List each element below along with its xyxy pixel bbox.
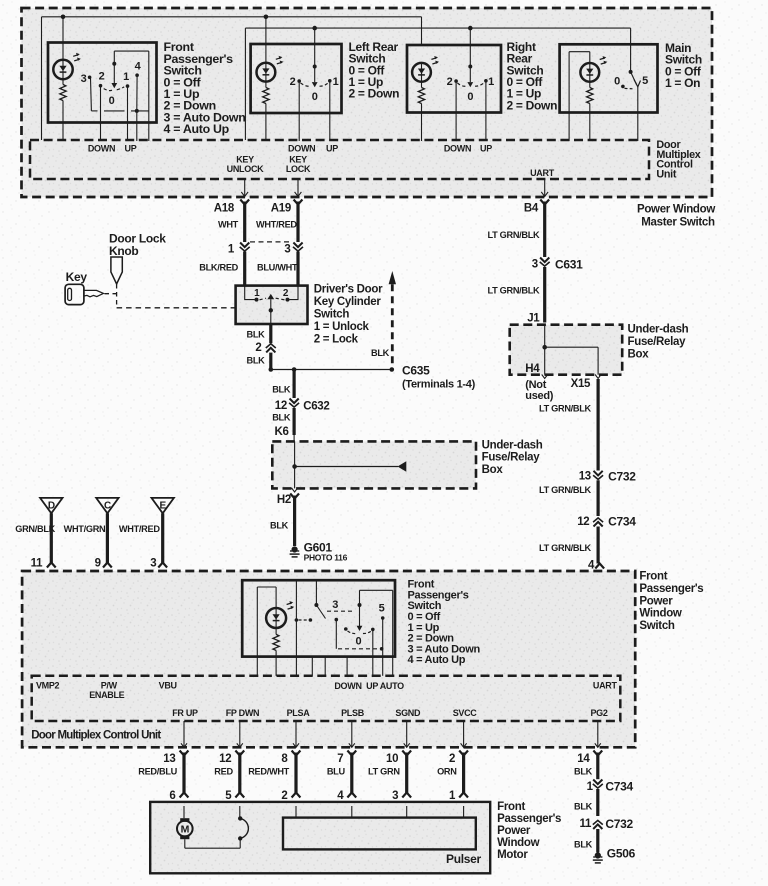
- svg-text:1: 1: [228, 243, 235, 255]
- svg-text:B4: B4: [524, 203, 539, 215]
- svg-text:ORN: ORN: [437, 766, 457, 776]
- svg-text:Window: Window: [639, 608, 682, 620]
- pin 7 wire BLU to motor pin 4: [351, 721, 353, 747]
- svg-text:LOCK: LOCK: [286, 164, 311, 174]
- svg-text:Passenger's: Passenger's: [639, 583, 703, 595]
- svg-text:2: 2: [449, 753, 455, 765]
- ground G506: [595, 852, 601, 858]
- svg-text:Box: Box: [482, 464, 504, 476]
- svg-text:UP AUTO: UP AUTO: [366, 681, 404, 691]
- svg-text:FP DWN: FP DWN: [226, 708, 260, 718]
- svg-text:2: 2: [255, 342, 261, 354]
- svg-text:Pulser: Pulser: [446, 852, 482, 866]
- svg-text:K6: K6: [274, 426, 288, 438]
- svg-text:C632: C632: [303, 400, 329, 412]
- mechanical linkage dashes: [105, 293, 117, 295]
- svg-text:BLK: BLK: [247, 355, 266, 365]
- svg-text:WHT/RED: WHT/RED: [119, 524, 160, 534]
- extra stubs below lower box: [311, 657, 313, 676]
- svg-text:KEY: KEY: [289, 155, 307, 165]
- svg-text:LT GRN/BLK: LT GRN/BLK: [539, 485, 592, 495]
- svg-text:11: 11: [580, 818, 592, 830]
- arrows out of master switch: A18 A19 B4: [244, 179, 246, 196]
- pin 13 wire RED/BLU to motor pin 6: [183, 721, 185, 747]
- svg-text:3: 3: [532, 259, 538, 271]
- lower switch contacts: [295, 580, 297, 676]
- svg-text:Door Multiplex Control Unit: Door Multiplex Control Unit: [31, 730, 161, 742]
- svg-text:VBU: VBU: [159, 680, 177, 690]
- connector C631: [540, 258, 549, 263]
- switch contacts box3: [469, 28, 471, 82]
- svg-text:VMP2: VMP2: [36, 680, 60, 690]
- svg-text:used): used): [525, 390, 553, 402]
- svg-text:DOWN: DOWN: [88, 143, 115, 153]
- front passenger's power window motor box: [150, 802, 490, 873]
- node C635 junction: [269, 367, 274, 372]
- svg-text:PLSA: PLSA: [287, 708, 311, 718]
- svg-text:SVCC: SVCC: [453, 708, 478, 718]
- connector 3 on A19: [293, 243, 302, 248]
- svg-text:LT GRN: LT GRN: [368, 766, 400, 776]
- key cylinder contacts: [245, 286, 255, 300]
- svg-text:BLK: BLK: [574, 766, 593, 776]
- svg-text:(Terminals 1-4): (Terminals 1-4): [402, 378, 476, 390]
- svg-text:1: 1: [333, 76, 339, 88]
- svg-text:Key Cylinder: Key Cylinder: [314, 296, 382, 308]
- svg-text:WHT: WHT: [218, 220, 239, 230]
- main switch contacts: [629, 70, 633, 74]
- svg-text:PLSB: PLSB: [341, 708, 365, 718]
- motor brush arc: [239, 806, 241, 818]
- svg-text:3: 3: [81, 73, 87, 85]
- wire X15 LT GRN/BLK: [596, 379, 599, 471]
- wire A18 BLK/RED: [243, 252, 246, 286]
- svg-text:Power Window: Power Window: [637, 203, 715, 215]
- left rear switch box: [251, 44, 342, 113]
- svg-text:2: 2: [99, 71, 105, 83]
- resistor box4: [589, 82, 591, 88]
- terminal A19: [294, 200, 303, 205]
- svg-text:1: 1: [449, 790, 456, 802]
- svg-text:0: 0: [312, 91, 318, 103]
- lamp box3: [412, 63, 431, 82]
- wire from triangle C (WHT/GRN): [106, 513, 109, 563]
- internal wires right under-dash box: [544, 325, 546, 375]
- svg-text:12: 12: [219, 753, 231, 765]
- wire from triangle D (GRN/BLK): [50, 513, 53, 563]
- resistor lower box: [275, 628, 277, 634]
- svg-text:PG2: PG2: [590, 708, 607, 718]
- wire to C635 terminals: [271, 369, 392, 371]
- power window master switch outer box: [22, 8, 713, 197]
- svg-text:X15: X15: [571, 378, 591, 390]
- svg-text:Under-dash: Under-dash: [482, 439, 543, 451]
- right rear switch box: [407, 45, 501, 113]
- svg-text:C734: C734: [605, 780, 633, 794]
- ground G601: [292, 546, 298, 552]
- pulser pin wires: [295, 806, 297, 818]
- svg-text:C732: C732: [608, 469, 636, 483]
- svg-text:BLK: BLK: [272, 385, 291, 395]
- svg-text:RED/BLU: RED/BLU: [138, 766, 177, 776]
- dashed riser with off-page arrow (C635 terminals): [389, 271, 396, 284]
- under-dash fuse/relay box (right): [510, 325, 623, 375]
- svg-text:UNLOCK: UNLOCK: [227, 164, 264, 174]
- front passenger's power window switch outer box: [22, 571, 635, 747]
- wire from arc to UP stub: [372, 629, 374, 675]
- door lock knob: [111, 257, 122, 284]
- connector 2 below key cylinder: [266, 348, 275, 353]
- svg-text:14: 14: [577, 753, 590, 765]
- connector C734 (bottom): [593, 780, 602, 785]
- svg-text:Driver's Door: Driver's Door: [314, 283, 383, 295]
- node bus1-lamp2: [264, 14, 269, 19]
- svg-text:WHT/GRN: WHT/GRN: [64, 524, 106, 534]
- svg-text:13: 13: [579, 471, 591, 483]
- svg-text:8: 8: [281, 753, 288, 765]
- svg-text:Power: Power: [497, 825, 531, 837]
- svg-text:G506: G506: [607, 847, 636, 861]
- connector C734 (right): [594, 522, 603, 527]
- svg-text:LT GRN/BLK: LT GRN/BLK: [487, 286, 540, 296]
- svg-text:BLU: BLU: [327, 766, 346, 776]
- svg-text:3: 3: [284, 243, 290, 255]
- wire BLK below key cylinder: [269, 324, 272, 343]
- pin 10 wire LT GRN to motor pin 3: [406, 721, 408, 747]
- svg-text:1: 1: [587, 781, 594, 793]
- motor M symbol: [183, 806, 185, 818]
- svg-text:Fuse/Relay: Fuse/Relay: [628, 336, 687, 348]
- svg-text:2 = Down: 2 = Down: [349, 87, 400, 101]
- svg-text:BLK/RED: BLK/RED: [199, 262, 238, 272]
- svg-text:BLK: BLK: [247, 329, 266, 339]
- wire A19 BLU/WHT: [296, 252, 299, 286]
- lamp (master switch illumination): [62, 17, 64, 60]
- svg-text:2 = Down: 2 = Down: [507, 98, 558, 112]
- svg-text:J1: J1: [527, 313, 540, 325]
- terminal H2: [290, 494, 299, 499]
- motor link wires: [184, 839, 186, 848]
- svg-text:Under-dash: Under-dash: [628, 323, 689, 335]
- svg-text:Motor: Motor: [497, 849, 528, 861]
- connector C632: [290, 399, 299, 404]
- svg-text:WHT/RED: WHT/RED: [256, 220, 297, 230]
- svg-text:7: 7: [337, 753, 343, 765]
- lamp lower box with bracket: [275, 587, 277, 608]
- svg-text:1: 1: [488, 76, 494, 88]
- svg-text:Key: Key: [66, 270, 88, 284]
- svg-text:UART: UART: [593, 680, 618, 690]
- svg-text:C631: C631: [555, 258, 583, 272]
- svg-text:Front: Front: [639, 570, 667, 582]
- node bus2-pivot3: [468, 26, 473, 31]
- svg-text:DOWN: DOWN: [288, 143, 315, 153]
- svg-text:DOWN: DOWN: [444, 143, 471, 153]
- connector triangle D: [40, 498, 62, 513]
- svg-text:C635: C635: [402, 363, 430, 377]
- wire BLK to C632: [293, 370, 296, 399]
- svg-text:Master Switch: Master Switch: [641, 216, 715, 228]
- pin 8 wire RED/WHT to motor pin 2: [295, 721, 297, 747]
- svg-text:GRN/BLK: GRN/BLK: [15, 524, 55, 534]
- svg-text:C732: C732: [605, 817, 633, 831]
- connector C732 (bottom): [593, 824, 602, 829]
- svg-text:1: 1: [123, 71, 129, 83]
- svg-text:SGND: SGND: [395, 708, 421, 718]
- svg-text:11: 11: [31, 558, 43, 570]
- connector triangle C: [96, 498, 118, 513]
- svg-text:Window: Window: [497, 837, 540, 849]
- svg-text:BLK: BLK: [270, 521, 289, 531]
- svg-text:BLK: BLK: [574, 840, 593, 850]
- svg-text:2: 2: [281, 790, 287, 802]
- svg-text:3: 3: [150, 558, 156, 570]
- terminal A18: [240, 200, 249, 205]
- svg-text:1: 1: [254, 288, 260, 299]
- svg-text:C734: C734: [608, 515, 636, 529]
- svg-text:LT GRN/BLK: LT GRN/BLK: [487, 230, 540, 240]
- svg-text:3: 3: [392, 790, 398, 802]
- lamp box4 with feed bracket: [589, 52, 591, 63]
- svg-text:2 = Lock: 2 = Lock: [314, 333, 359, 345]
- svg-text:9: 9: [95, 558, 101, 570]
- svg-text:RED: RED: [214, 766, 233, 776]
- svg-text:ENABLE: ENABLE: [89, 690, 124, 700]
- lamp box2: [265, 17, 267, 63]
- wire BLK to G601: [293, 496, 296, 547]
- pin 2 wire ORN to motor pin 1: [463, 721, 465, 747]
- door multiplex control unit box (top): [30, 140, 649, 179]
- svg-text:12: 12: [577, 516, 589, 528]
- svg-text:M: M: [181, 824, 190, 836]
- connector C732 (right): [594, 471, 603, 476]
- svg-text:P/W: P/W: [101, 680, 118, 690]
- resistor below lamp1: [62, 79, 64, 84]
- svg-text:4 = Auto Up: 4 = Auto Up: [408, 654, 466, 666]
- contact arc dashes box1: [104, 89, 112, 91]
- svg-text:BLU/WHT: BLU/WHT: [257, 262, 298, 272]
- switch contacts box1: [114, 50, 149, 52]
- node bus2-pivot2: [312, 26, 317, 31]
- front passenger's switch box (lower): [242, 580, 395, 656]
- auto-down link: [335, 618, 339, 622]
- svg-text:2: 2: [290, 76, 296, 88]
- pin 14 wire BLK: [597, 721, 599, 747]
- switch contacts box2: [314, 28, 316, 82]
- svg-text:5: 5: [225, 790, 232, 802]
- internal wire of left under-dash box: [294, 441, 296, 488]
- svg-text:RED/WHT: RED/WHT: [248, 766, 289, 776]
- connector triangle E: [152, 498, 174, 513]
- svg-text:Switch: Switch: [639, 620, 675, 632]
- svg-text:4: 4: [337, 790, 344, 802]
- connector 1 on A18: [240, 243, 249, 248]
- main switch box: [560, 44, 658, 112]
- svg-text:BLK: BLK: [272, 412, 291, 422]
- svg-text:Box: Box: [628, 348, 650, 360]
- svg-text:5: 5: [379, 603, 385, 615]
- wire B4 LT GRN/BLK: [543, 202, 546, 258]
- svg-text:Front: Front: [497, 801, 525, 813]
- svg-text:H2: H2: [277, 494, 291, 506]
- svg-text:0: 0: [355, 636, 361, 648]
- svg-text:12: 12: [275, 400, 287, 412]
- pin 12 wire RED to motor pin 5: [239, 721, 241, 747]
- dashed link between connectors 1 and 3: [250, 241, 293, 243]
- svg-text:LT GRN/BLK: LT GRN/BLK: [539, 543, 592, 553]
- svg-text:2: 2: [447, 76, 453, 88]
- front passenger's switch box (master): [48, 43, 157, 123]
- resistor box2: [265, 82, 267, 88]
- svg-text:Fuse/Relay: Fuse/Relay: [482, 452, 541, 464]
- wire A18 WHT: [243, 202, 246, 243]
- svg-text:Knob: Knob: [109, 244, 138, 258]
- svg-text:BLK: BLK: [574, 802, 593, 812]
- svg-text:A18: A18: [214, 203, 235, 215]
- driver's door key cylinder switch box: [236, 286, 308, 324]
- svg-text:C: C: [104, 501, 111, 512]
- svg-text:Unit: Unit: [656, 169, 676, 181]
- wire A19 WHT/RED: [296, 202, 299, 243]
- terminal B4: [540, 200, 549, 205]
- under-dash fuse/relay box (left): [272, 441, 476, 488]
- svg-text:E: E: [160, 501, 167, 512]
- svg-text:0: 0: [467, 91, 473, 103]
- svg-text:FR UP: FR UP: [172, 708, 198, 718]
- wire bus1: [41, 17, 43, 140]
- svg-text:0: 0: [109, 95, 115, 107]
- svg-text:DOWN: DOWN: [334, 681, 361, 691]
- svg-text:UART: UART: [530, 168, 555, 178]
- svg-text:Power: Power: [639, 595, 673, 607]
- svg-text:0: 0: [614, 75, 620, 87]
- svg-text:D: D: [48, 501, 55, 512]
- svg-text:13: 13: [163, 753, 175, 765]
- right bracket lower box: [360, 589, 393, 591]
- svg-text:UP: UP: [326, 143, 338, 153]
- door multiplex control unit box (bottom): [32, 676, 621, 721]
- svg-text:KEY: KEY: [236, 155, 254, 165]
- node bus1-lamp1: [61, 14, 66, 19]
- resistor box3: [421, 82, 423, 88]
- svg-text:4 = Auto Up: 4 = Auto Up: [164, 122, 230, 136]
- svg-text:LT GRN/BLK: LT GRN/BLK: [539, 403, 592, 413]
- svg-text:Passenger's: Passenger's: [497, 813, 561, 825]
- svg-text:1 = On: 1 = On: [665, 76, 700, 90]
- svg-text:A19: A19: [271, 203, 291, 215]
- wire from triangle E (WHT/RED): [161, 513, 164, 563]
- svg-text:UP: UP: [480, 143, 492, 153]
- svg-text:3: 3: [332, 599, 338, 611]
- pulser box: [283, 818, 476, 850]
- svg-text:10: 10: [386, 753, 398, 765]
- svg-text:Switch: Switch: [314, 308, 350, 320]
- svg-text:H4: H4: [525, 363, 540, 375]
- svg-text:PHOTO 116: PHOTO 116: [304, 553, 348, 563]
- svg-text:UP: UP: [125, 143, 137, 153]
- svg-text:1 = Unlock: 1 = Unlock: [314, 321, 370, 333]
- wire bus2: [244, 28, 246, 140]
- wire UART inside switch box: [599, 571, 601, 676]
- svg-text:BLK: BLK: [371, 348, 390, 358]
- svg-text:5: 5: [642, 75, 648, 87]
- svg-text:2: 2: [283, 288, 289, 299]
- svg-text:6: 6: [169, 790, 175, 802]
